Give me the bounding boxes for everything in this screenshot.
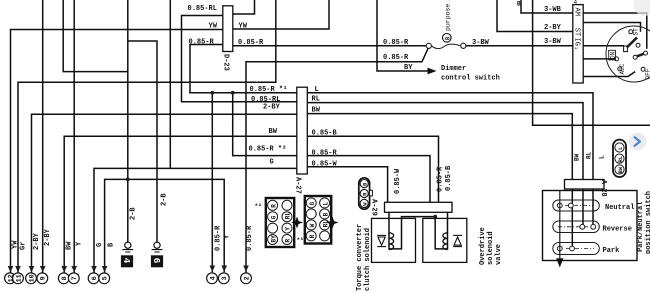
park contact left (557, 246, 562, 251)
svg-text:12: 12 (7, 274, 15, 282)
svg-text:IG₁: IG₁ (573, 38, 581, 51)
wire ignition AM to rotary contact (583, 13, 647, 48)
wire overdrive solenoid loop (435, 212, 447, 249)
svg-text:Reverse: Reverse (603, 226, 632, 234)
svg-text:YW: YW (239, 23, 248, 31)
svg-text:G: G (270, 159, 274, 167)
ground 4 symbol circle (125, 242, 131, 248)
svg-text:BY: BY (270, 235, 277, 243)
svg-text:Dimmer: Dimmer (441, 65, 466, 73)
wire B from top edge down and right to park/neutral switch area (533, 0, 650, 125)
svg-text:5: 5 (102, 276, 110, 280)
wire BY from top edge down to arrow (377, 0, 429, 71)
star mark between blocks (291, 217, 303, 229)
dimmer switch contact left (426, 43, 431, 48)
position switch reverse slot (553, 221, 600, 233)
reverse contact right (591, 224, 596, 229)
svg-text:8: 8 (61, 276, 69, 280)
wire L from A-27 to position switch (308, 93, 594, 225)
torque converter clutch solenoid box (372, 218, 416, 262)
wire 2-BY from top edge down to terminal 9 (42, 0, 44, 272)
rotary contact ACC (618, 67, 622, 71)
wire Gr from terminal 11 up and right then up to top edge (18, 0, 276, 272)
connector A-29 body (385, 202, 453, 212)
svg-text:valve: valve (495, 244, 503, 265)
terminal arrows and circles (5, 266, 252, 284)
position switch box (543, 191, 638, 261)
svg-text:A-27: A-27 (293, 177, 301, 194)
svg-text:B: B (517, 1, 521, 8)
svg-text:6: 6 (91, 276, 99, 280)
junction node 2-B/B wire (126, 178, 130, 182)
connector pill A-28 face (613, 140, 626, 177)
wire 0.85-R branch down to terminal 4 (211, 93, 213, 272)
terminal 6 (91, 266, 97, 272)
connector ignition switch body (573, 5, 583, 83)
wire ignition lower pin to ON contact (583, 58, 614, 60)
neutral contact left (557, 203, 562, 208)
rotary pin IG1 (624, 46, 628, 52)
terminal 2 (243, 266, 249, 272)
carousel next button (629, 133, 647, 151)
svg-text:2-BY: 2-BY (544, 24, 562, 32)
terminal 8 (61, 266, 67, 272)
label ON rotary (609, 50, 616, 60)
svg-text:B: B (322, 212, 329, 216)
wire RL from A-27 to position switch (308, 103, 584, 225)
svg-text:D-23: D-23 (222, 54, 230, 71)
wire torque converter solenoid loop (389, 212, 435, 249)
svg-text:L: L (322, 201, 329, 205)
terminal 12 (8, 266, 14, 272)
dimmer switch fuse squiggle (431, 44, 460, 49)
connector pill BRW face (359, 178, 373, 209)
svg-text:0.85-W: 0.85-W (394, 168, 402, 194)
terminal 9 (40, 266, 46, 272)
svg-text:0.85-R: 0.85-R (437, 166, 445, 192)
wire 2-BY from top edge to ignition switch ST (497, 0, 573, 32)
svg-text:YW: YW (209, 23, 218, 31)
wire Y from top edge down to terminal 7 (73, 0, 75, 272)
svg-text:control switch: control switch (441, 75, 500, 83)
wire 0.85-B from A-27 down to A-29 (308, 136, 439, 202)
svg-text:*²: *² (255, 203, 262, 210)
pill pin 2 (615, 154, 624, 163)
terminal 3 (221, 266, 227, 272)
position switch ground arrow (556, 258, 563, 267)
svg-text:BW: BW (574, 153, 581, 161)
svg-text:ON: ON (610, 51, 617, 59)
terminal numbers (7, 274, 251, 282)
svg-text:position switch: position switch (645, 191, 650, 254)
overdrive solenoid coil (443, 233, 448, 250)
rotary contact b (636, 43, 640, 47)
svg-text:L: L (315, 86, 319, 94)
ground 6 symbol circle (154, 242, 160, 248)
junction node 0.85-R*1 b (231, 91, 235, 95)
junction node overdrive solenoid (433, 215, 437, 219)
dimmer switch contact right (461, 43, 466, 48)
wire from top at x=170 down to G wire junction (169, 0, 171, 168)
svg-text:10: 10 (28, 274, 36, 282)
position switch park slot (553, 243, 600, 255)
svg-text:2-BY: 2-BY (44, 228, 52, 246)
wire ignition ST to rotary contact (583, 23, 640, 32)
svg-text:0.85-R *²: 0.85-R *² (249, 146, 287, 154)
svg-text:R: R (309, 234, 316, 238)
svg-text:Neutral: Neutral (605, 204, 634, 212)
svg-text:R: R (285, 239, 292, 243)
svg-text:0.85-R *¹: 0.85-R *¹ (250, 86, 288, 94)
svg-text:0.85-R: 0.85-R (383, 39, 409, 47)
svg-text:RL: RL (285, 212, 292, 220)
svg-text:7: 7 (71, 276, 79, 280)
wire 2-BY from terminal 10 up to A-27 (32, 114, 298, 272)
overdrive solenoid diode (453, 235, 462, 246)
svg-text:purpose: purpose (445, 4, 452, 31)
svg-text:3-BW: 3-BW (472, 39, 490, 47)
svg-text:A-28: A-28 (599, 180, 607, 197)
rotary contact e (633, 55, 637, 59)
A-27 breakout block right (305, 196, 331, 244)
svg-text:G: G (309, 201, 316, 205)
wire ignition bottom pin to ACC contact (583, 72, 634, 77)
wire 0.85-R*1 into A-27 (190, 92, 297, 94)
svg-text:BW: BW (269, 128, 278, 136)
arrow BY head (428, 68, 437, 75)
torque converter solenoid coil (389, 233, 394, 250)
terminal 5 (102, 266, 108, 272)
svg-text:solenoid: solenoid (487, 231, 495, 265)
wire 0.85-RL right of D-23 up to top edge (233, 0, 255, 14)
pill pin 1 (615, 143, 624, 152)
wire YW right of D-23 up to top edge (233, 0, 329, 29)
svg-text:0.85-R: 0.85-R (189, 39, 215, 47)
svg-text:0.85-W: 0.85-W (312, 161, 338, 169)
svg-text:2-B: 2-B (161, 193, 169, 206)
wire ignition IG1 to rotary ON contact (583, 45, 623, 47)
svg-text:0.85-R: 0.85-R (246, 225, 254, 251)
svg-text:A-29: A-29 (369, 199, 377, 216)
park slot dash line (566, 248, 594, 250)
ground 6 square (151, 255, 163, 267)
svg-text:0.85-B: 0.85-B (445, 165, 453, 191)
svg-text:RL: RL (586, 151, 593, 159)
svg-text:2-B: 2-B (130, 207, 138, 220)
svg-text:AM: AM (573, 8, 581, 16)
rotary contact ST (629, 30, 633, 34)
svg-text:BY: BY (404, 64, 413, 72)
connector D-23 body (223, 6, 233, 52)
svg-text:Y: Y (285, 227, 292, 231)
svg-text:2: 2 (243, 276, 251, 280)
wire 0.85-W from A-27 down to A-29 (308, 167, 388, 203)
rotary contact OFF (641, 67, 645, 71)
svg-text:G: G (270, 215, 277, 219)
wire branch to 2-B ground 6 (128, 41, 157, 242)
svg-text:BW: BW (66, 241, 74, 250)
wire 0.85-R lower from terminal 2 up and right to dimmer switch blade (246, 49, 428, 273)
svg-text:ACC: ACC (619, 63, 626, 74)
ground 4 square (121, 255, 133, 267)
neutral slot dash line (565, 205, 594, 207)
svg-text:L: L (599, 155, 606, 159)
svg-text:3-WB: 3-WB (544, 6, 562, 14)
wire 0.85-R from D-23 right to dimmer switch contact (233, 45, 426, 47)
svg-text:Torque converter: Torque converter (356, 224, 364, 291)
svg-text:4: 4 (209, 276, 217, 280)
rotary blade 1 (627, 38, 637, 48)
wire 0.85-R from D-23 left down to node 0.85-R*1 (190, 45, 223, 93)
overdrive solenoid valve box (423, 218, 467, 262)
svg-text:8: 8 (445, 36, 452, 40)
position switch ground chain wire (559, 191, 561, 261)
wire 0.85-RL from D-23 left down to A-27 pin RL (182, 16, 298, 102)
reverse contact left (580, 224, 585, 229)
svg-text:BW: BW (617, 166, 624, 173)
svg-text:W: W (309, 223, 316, 227)
svg-text:4: 4 (574, 0, 578, 6)
torque converter solenoid diode (377, 235, 386, 246)
svg-text:3: 3 (221, 276, 229, 280)
junction node 0.85-R*1 a (210, 91, 214, 95)
ignition rotary switch circle (606, 26, 650, 82)
park contact right (570, 246, 575, 251)
svg-text:3-BW: 3-BW (544, 38, 562, 46)
terminal 7 (71, 266, 77, 272)
terminal 10 (29, 266, 35, 272)
svg-text:6: 6 (151, 258, 162, 264)
svg-text:2-BY: 2-BY (263, 104, 281, 112)
pill pin 3 (615, 165, 624, 174)
neutral contact right (568, 203, 573, 208)
wire from top at x=63 down and right to 2-B vertical (63, 0, 128, 72)
svg-text:RL: RL (617, 155, 624, 162)
wire BW from A-27 to position switch (308, 114, 573, 247)
svg-text:ST: ST (573, 28, 581, 36)
svg-text:ST: ST (633, 28, 640, 36)
terminal 4 (210, 266, 216, 272)
svg-text:YW: YW (12, 240, 20, 249)
connector A-27 body (297, 87, 308, 174)
svg-text:2-BY: 2-BY (33, 232, 41, 250)
rotated wire labels bottom left (12, 193, 255, 251)
wire YW left from top-left corner down to terminal 12 and right to D-23 (11, 30, 224, 273)
svg-text:0.85-RL: 0.85-RL (188, 5, 217, 13)
connector A-28 body (565, 180, 605, 190)
rotary contact d (644, 51, 648, 55)
svg-text:0.85-B: 0.85-B (312, 130, 338, 138)
svg-text:0.85-R: 0.85-R (238, 39, 264, 47)
svg-text:G: G (96, 243, 104, 247)
wire G from terminal 6 up to A-27 (94, 168, 297, 272)
svg-text:4: 4 (121, 258, 132, 264)
multi-purpose fuse circle 8 (443, 34, 452, 43)
position switch neutral slot (553, 200, 600, 211)
reverse slot dash line (558, 226, 588, 228)
svg-text:9: 9 (40, 276, 48, 280)
wire B from terminal 5 up right to node and down to terminal 3 (105, 179, 225, 272)
svg-text:0.85-R: 0.85-R (215, 225, 223, 251)
svg-text:0.85-R: 0.85-R (312, 150, 338, 158)
wire 3-WB from top edge to ignition switch AM (521, 0, 573, 13)
svg-text:clutch solenoid: clutch solenoid (364, 228, 372, 291)
svg-text:Gr: Gr (20, 242, 28, 250)
svg-text:Park/Neutral: Park/Neutral (637, 202, 645, 252)
svg-text:11: 11 (15, 274, 23, 282)
terminal 11 (15, 266, 21, 272)
svg-text:Park: Park (603, 247, 620, 255)
wire BW from terminal 8 up to A-27 (64, 136, 297, 272)
svg-text:Overdrive: Overdrive (479, 227, 487, 265)
rotary blade 2 (637, 54, 645, 57)
svg-text:0.85-R: 0.85-R (383, 54, 409, 62)
rotary contact ON (615, 57, 619, 61)
svg-text:BW: BW (312, 107, 321, 115)
wire 0.85-R*2 branch down into A-27 (233, 93, 297, 156)
svg-text:RL: RL (312, 96, 320, 104)
svg-text:*¹: *¹ (297, 237, 304, 244)
svg-text:RL: RL (322, 220, 329, 228)
faded carousel button top right (634, 0, 650, 16)
A-27 breakout block left (266, 198, 294, 247)
wire 2-B from top edge down to ground 4 (127, 0, 129, 242)
svg-text:OFF: OFF (645, 68, 650, 79)
wire 0.85-R from A-27 down to A-29 (308, 156, 431, 203)
star mark right of right block (327, 217, 339, 229)
wire 3-BW from dimmer switch to ignition switch IG1 (466, 45, 573, 47)
svg-text:R: R (270, 204, 277, 208)
